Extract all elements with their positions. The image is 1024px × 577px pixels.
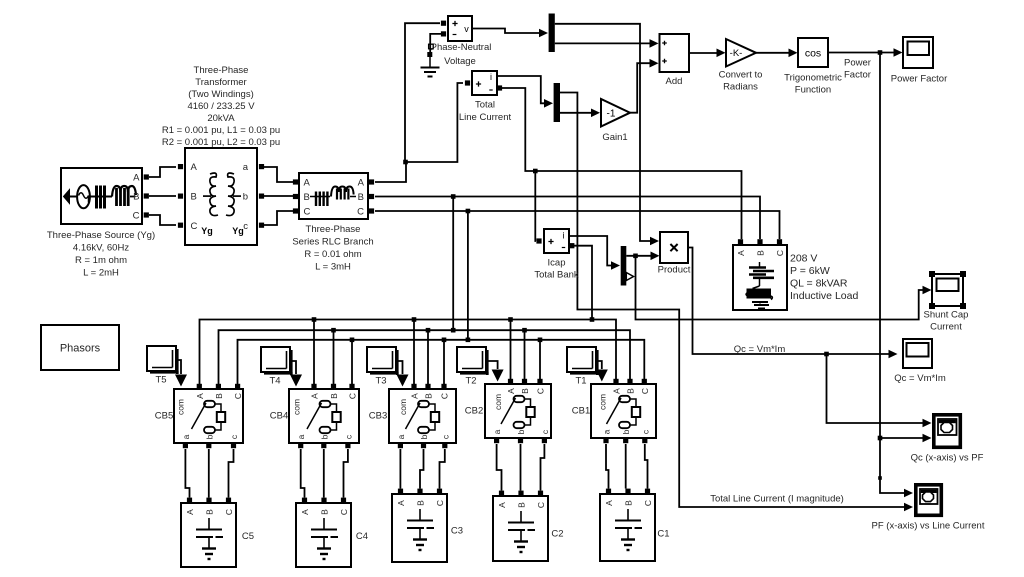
svg-text:Phasors: Phasors xyxy=(60,343,101,355)
svg-text:PF (x-axis) vs Line Current: PF (x-axis) vs Line Current xyxy=(872,521,985,532)
C4 port A xyxy=(302,498,307,503)
C1 port A xyxy=(606,489,611,494)
bus C drop CB2 xyxy=(539,340,541,382)
svg-text:c: c xyxy=(440,434,450,439)
svg-text:A: A xyxy=(304,178,311,189)
wire convert to cos xyxy=(756,52,789,54)
C2 capacitor icon xyxy=(520,511,522,523)
svg-text:C: C xyxy=(435,500,445,506)
svg-text:A: A xyxy=(396,500,406,506)
svg-text:R = 0.01 ohm: R = 0.01 ohm xyxy=(304,249,361,260)
svg-text:C: C xyxy=(348,393,358,399)
bus A drop CB4 xyxy=(313,320,315,387)
wire CB1 b to C1 B xyxy=(625,444,627,489)
demux Icap bar xyxy=(621,246,627,286)
svg-text:C: C xyxy=(640,388,650,394)
bus C junction phase tap xyxy=(466,338,471,343)
CB5 port c xyxy=(231,443,236,448)
wire source A to transformer A xyxy=(149,167,176,177)
wire timer T2 to CB2 com xyxy=(486,361,498,369)
CB5 port B xyxy=(216,384,221,389)
ground symbol xyxy=(429,57,431,68)
voltage measurement ports xyxy=(441,21,446,26)
demux V out1 Vm to Product xyxy=(555,24,650,241)
node phase C tap xyxy=(466,209,471,214)
wire CB4 a to C4 A xyxy=(301,449,305,498)
C3 port C xyxy=(437,489,442,494)
C5 port B xyxy=(206,498,211,503)
three-phase series RLC branch block xyxy=(299,173,368,219)
svg-text:(Two Windings): (Two Windings) xyxy=(188,89,253,100)
svg-text:Total: Total xyxy=(475,100,495,111)
transformer winding secondary xyxy=(226,173,234,216)
powergui block Phasors xyxy=(41,325,119,370)
svg-text:CB4: CB4 xyxy=(270,411,288,422)
CB1 port B xyxy=(627,379,632,384)
svg-text:B: B xyxy=(520,388,530,394)
timer block T3 xyxy=(396,350,399,375)
svg-text:a: a xyxy=(492,429,502,434)
current - port xyxy=(497,85,502,90)
CB1 port A xyxy=(613,379,618,384)
wire timer T3 to CB3 com xyxy=(396,361,403,374)
bus B drop CB4 xyxy=(333,330,335,386)
svg-text:B: B xyxy=(205,509,215,515)
svg-text:Phase-Neutral: Phase-Neutral xyxy=(431,42,492,53)
capacitor bank block C5 xyxy=(181,503,236,567)
capacitor bank block C3 xyxy=(392,494,447,562)
svg-text:4.16kV, 60Hz: 4.16kV, 60Hz xyxy=(73,243,129,254)
svg-text:T2: T2 xyxy=(465,376,476,387)
wire source B to transformer B xyxy=(149,195,176,197)
svg-text:cos: cos xyxy=(805,48,821,60)
svg-text:i: i xyxy=(490,72,492,82)
svg-text:C3: C3 xyxy=(451,526,463,537)
C5 port A xyxy=(187,498,192,503)
svg-text:B: B xyxy=(416,500,426,506)
svg-text:L = 2mH: L = 2mH xyxy=(83,268,119,279)
three-phase transformer block (Two Windings) xyxy=(185,148,257,245)
C1 port C xyxy=(645,489,650,494)
C3 port B xyxy=(417,489,422,494)
source port B xyxy=(144,193,149,198)
current measurement block Icap Total Bank xyxy=(544,229,569,253)
wire transformer b to RLC B xyxy=(264,195,293,197)
svg-text:C: C xyxy=(224,509,234,515)
bus A junction CB3 xyxy=(412,317,417,322)
svg-text:a: a xyxy=(243,162,249,173)
wire icap i to demux Icap xyxy=(569,236,611,266)
svg-text:T1: T1 xyxy=(575,376,586,387)
svg-text:a: a xyxy=(396,434,406,439)
svg-text:Qc = Vm*Im: Qc = Vm*Im xyxy=(894,373,946,384)
svg-text:com: com xyxy=(292,399,302,415)
CB2 switch icon xyxy=(514,396,525,402)
svg-text:b: b xyxy=(243,192,248,203)
svg-text:T5: T5 xyxy=(155,375,166,386)
wire timer T4 to CB4 com xyxy=(290,361,296,374)
scope block Qc = Vm*Im xyxy=(903,339,932,368)
bus A junction CB2 xyxy=(508,317,513,322)
wire transformer a to RLC A xyxy=(264,167,293,182)
svg-text:C2: C2 xyxy=(551,529,563,540)
three-phase source block (Three-Phase Source Yg) xyxy=(61,168,142,224)
capacitor bank block C1 xyxy=(600,494,655,561)
CB5 port C xyxy=(235,384,240,389)
svg-text:C: C xyxy=(775,250,785,256)
svg-text:a: a xyxy=(181,434,191,439)
svg-text:A: A xyxy=(612,388,622,394)
C2 ground xyxy=(514,540,528,542)
wire phase C tap down to bus C xyxy=(467,211,469,338)
bus C junction CB2 xyxy=(538,338,543,343)
CB5 port A xyxy=(197,384,202,389)
svg-text:A: A xyxy=(358,178,365,189)
svg-text:com: com xyxy=(176,399,186,415)
svg-text:Power Factor: Power Factor xyxy=(891,74,948,85)
svg-text:B: B xyxy=(626,388,636,394)
wire phase B to load xyxy=(375,197,760,240)
svg-text:Product: Product xyxy=(658,265,691,276)
bus C drop CB4 xyxy=(351,340,353,386)
svg-text:C: C xyxy=(643,500,653,506)
source port C xyxy=(144,212,149,217)
svg-text:B: B xyxy=(214,393,224,399)
CB5 switch icon xyxy=(204,401,215,407)
CB4 switch icon xyxy=(320,401,331,407)
C2 port C xyxy=(538,491,543,496)
trigonometric function block cos xyxy=(798,38,828,67)
wire current - down to phase A line xyxy=(502,88,742,239)
CB2 port c xyxy=(542,438,547,443)
wire add output to convert xyxy=(689,52,717,54)
C3 port A xyxy=(398,489,403,494)
node Icap signal to shunt scope xyxy=(633,254,638,259)
demux I out1 Imagnitude long wire xyxy=(560,93,904,508)
svg-text:com: com xyxy=(597,394,607,410)
bus C junction CB3 xyxy=(442,338,447,343)
C5 port C xyxy=(226,498,231,503)
svg-text:P = 6kW: P = 6kW xyxy=(790,265,830,277)
svg-text:C5: C5 xyxy=(242,531,254,542)
CB4 port a xyxy=(298,443,303,448)
bus B drop CB2 xyxy=(524,330,526,381)
svg-text:C1: C1 xyxy=(657,529,669,540)
RLC ports xyxy=(293,179,298,184)
bus A horizontal xyxy=(200,320,617,387)
svg-text:R1 = 0.001 pu, L1 = 0.03 pu: R1 = 0.001 pu, L1 = 0.03 pu xyxy=(162,125,280,136)
svg-text:208 V: 208 V xyxy=(790,253,817,265)
wire CB5 a to C5 A xyxy=(185,449,189,498)
wire product out Qc xyxy=(688,248,889,355)
svg-text:Icap: Icap xyxy=(548,258,566,269)
svg-text:C4: C4 xyxy=(356,531,368,542)
CB3 port A xyxy=(411,384,416,389)
svg-text:A: A xyxy=(185,509,195,515)
capacitor bank block C4 xyxy=(296,503,351,567)
wire timer T5 to CB5 com xyxy=(176,360,181,374)
timer block T2 xyxy=(486,350,489,375)
svg-text:b: b xyxy=(419,434,429,439)
svg-text:A: A xyxy=(191,162,198,173)
three-phase breaker block CB1 xyxy=(591,384,656,438)
wire PF to Qc-vs-PF input2 xyxy=(880,437,923,439)
svg-text:C: C xyxy=(440,393,450,399)
svg-text:CB2: CB2 xyxy=(465,406,483,417)
wire CB2 b to C2 B xyxy=(520,444,522,491)
svg-text:Convert to: Convert to xyxy=(719,70,763,81)
wire Icap signal to Shunt Cap Current scope xyxy=(636,256,924,320)
node phase A to Icap xyxy=(533,169,538,174)
svg-text:A: A xyxy=(195,393,205,399)
svg-text:Factor: Factor xyxy=(844,70,871,81)
CB1 switch icon xyxy=(619,396,630,402)
wire CB4 c to C4 C xyxy=(344,449,348,498)
wire CB5 b to C5 B xyxy=(208,449,210,498)
three-phase breaker block CB4 xyxy=(289,389,359,443)
wire voltage v output to demux V xyxy=(472,29,539,34)
C2 port A xyxy=(499,491,504,496)
svg-text:C: C xyxy=(339,509,349,515)
source port A xyxy=(144,174,149,179)
CB2 port B xyxy=(522,379,527,384)
bus B junction CB4 xyxy=(331,328,336,333)
svg-text:20kVA: 20kVA xyxy=(207,113,235,124)
wire current i output to demux I xyxy=(497,76,544,103)
svg-text:A: A xyxy=(310,393,320,399)
svg-text:L = 3mH: L = 3mH xyxy=(315,262,351,273)
RLC resistor icon xyxy=(310,196,314,198)
demux V bar xyxy=(549,14,555,53)
svg-text:A: A xyxy=(736,250,746,256)
svg-text:T4: T4 xyxy=(269,376,280,387)
bus A drop CB3 xyxy=(413,320,415,387)
svg-text:C: C xyxy=(536,502,546,508)
wire icap - to capacitor bus A xyxy=(574,246,592,319)
CB3 port C xyxy=(441,384,446,389)
demux I bar xyxy=(554,83,560,122)
node power factor signal xyxy=(878,50,883,55)
bus A drop CB2 xyxy=(510,320,512,382)
C4 ground xyxy=(317,547,331,549)
svg-text:a: a xyxy=(602,429,612,434)
svg-text:Three-Phase: Three-Phase xyxy=(194,65,249,76)
wire transformer c to RLC C xyxy=(264,211,293,225)
CB1 port c xyxy=(642,438,647,443)
C5 ground xyxy=(202,547,216,549)
C5 capacitor icon xyxy=(208,518,210,530)
svg-text:Yg: Yg xyxy=(201,226,213,236)
svg-text:Qc = Vm*Im: Qc = Vm*Im xyxy=(734,344,786,355)
scope block Shunt Cap Current (selected) xyxy=(932,274,963,306)
svg-text:B: B xyxy=(304,192,310,203)
svg-text:Line Current: Line Current xyxy=(459,112,512,123)
capacitor bank block C2 xyxy=(493,496,548,561)
svg-text:b: b xyxy=(621,429,631,434)
wire timer T1 to CB1 com xyxy=(596,361,602,369)
svg-text:T3: T3 xyxy=(375,376,386,387)
bus B junction CB2 xyxy=(522,328,527,333)
svg-text:A: A xyxy=(604,500,614,506)
svg-text:Voltage: Voltage xyxy=(444,56,476,67)
RLC inductor icon xyxy=(331,187,354,197)
wire CB5 c to C5 C xyxy=(229,449,234,498)
svg-text:Total Line Current (I magnitud: Total Line Current (I magnitude) xyxy=(710,494,844,505)
svg-text:Trigonometric: Trigonometric xyxy=(784,73,842,84)
C2 port B xyxy=(518,491,523,496)
CB3 port B xyxy=(425,384,430,389)
svg-text:Function: Function xyxy=(795,85,831,96)
load port A xyxy=(738,239,743,244)
C4 capacitor icon xyxy=(323,518,325,530)
svg-text:B: B xyxy=(517,502,527,508)
svg-text:A: A xyxy=(497,502,507,508)
load port C xyxy=(777,239,782,244)
svg-text:b: b xyxy=(516,429,526,434)
three-phase breaker block CB2 xyxy=(485,384,551,438)
wire CB3 c to C3 C xyxy=(440,449,445,489)
C1 port B xyxy=(625,489,630,494)
svg-text:-K-: -K- xyxy=(730,48,743,59)
svg-text:B: B xyxy=(133,192,139,203)
svg-text:Total Bank: Total Bank xyxy=(534,270,579,281)
timer block T5 xyxy=(176,349,179,374)
wire phase C to load xyxy=(375,211,780,239)
svg-text:B: B xyxy=(320,509,330,515)
svg-text:A: A xyxy=(133,173,140,184)
three-phase breaker block CB5 xyxy=(174,389,243,443)
bus B junction phase tap xyxy=(451,328,456,333)
svg-text:-1: -1 xyxy=(607,109,616,120)
node Qc to XY xyxy=(824,352,829,357)
svg-text:C: C xyxy=(233,393,243,399)
svg-text:B: B xyxy=(424,393,434,399)
current measurement + port xyxy=(465,80,470,85)
C1 capacitor icon xyxy=(627,509,629,521)
svg-text:Transformer: Transformer xyxy=(195,77,246,88)
bus A junction from Icap xyxy=(590,317,595,322)
bus B junction CB3 xyxy=(426,328,431,333)
demux I out2 to Gain1 xyxy=(560,112,592,114)
svg-text:Radians: Radians xyxy=(723,82,758,93)
CB5 port a xyxy=(183,443,188,448)
wire demux Icap out to Product input2 xyxy=(626,255,651,257)
C1 ground xyxy=(621,538,635,540)
wire CB1 a to C1 A xyxy=(606,444,609,489)
svg-text:Series RLC Branch: Series RLC Branch xyxy=(292,237,373,248)
load icon inductor resistor xyxy=(759,262,761,267)
wire CB2 c to C2 C xyxy=(541,444,545,491)
svg-text:Add: Add xyxy=(666,76,683,87)
bus C junction CB4 xyxy=(350,338,355,343)
wire phase A down to Icap + xyxy=(534,171,537,241)
svg-text:CB3: CB3 xyxy=(369,411,387,422)
C4 port C xyxy=(341,498,346,503)
svg-text:A: A xyxy=(506,388,516,394)
C3 ground xyxy=(413,538,427,540)
svg-text:c: c xyxy=(343,434,353,439)
wire Qc to Qc-vs-PF input1 xyxy=(827,354,923,423)
svg-text:CB5: CB5 xyxy=(155,411,173,422)
voltage measurement block Phase-Neutral Voltage xyxy=(448,16,472,41)
CB3 port c xyxy=(442,443,447,448)
gain block Gain1 -1 xyxy=(601,99,630,127)
C4 port B xyxy=(321,498,326,503)
wire gain1 to Add input2 xyxy=(630,63,650,112)
svg-text:B: B xyxy=(358,192,364,203)
wire CB1 c to C1 C xyxy=(645,444,648,489)
svg-text:b: b xyxy=(319,434,329,439)
wire voltage - to ground xyxy=(430,34,441,53)
wire source C to transformer C xyxy=(149,215,176,225)
transformer winding primary xyxy=(210,173,218,216)
svg-text:i: i xyxy=(563,231,565,241)
CB4 port B xyxy=(331,384,336,389)
CB2 port b xyxy=(518,438,523,443)
bus A junction CB4 xyxy=(312,317,317,322)
CB4 port b xyxy=(321,443,326,448)
svg-text:v: v xyxy=(464,24,469,34)
CB3 port a xyxy=(398,443,403,448)
svg-text:Three-Phase Source (Yg): Three-Phase Source (Yg) xyxy=(47,230,155,241)
svg-text:QL = 8kVAR: QL = 8kVAR xyxy=(790,278,848,290)
svg-text:B: B xyxy=(624,500,634,506)
gain block Convert to Radians xyxy=(726,39,756,67)
svg-text:B: B xyxy=(756,250,766,256)
svg-text:Power: Power xyxy=(844,58,871,69)
svg-text:C: C xyxy=(304,207,311,218)
load port B xyxy=(757,239,762,244)
timer block T1 xyxy=(596,350,599,375)
CB3 switch icon xyxy=(418,401,429,407)
svg-text:C: C xyxy=(357,207,364,218)
svg-text:B: B xyxy=(329,393,339,399)
node phase A tap xyxy=(403,160,408,165)
CB3 port b xyxy=(421,443,426,448)
xy graph block PF (x-axis) vs Line Current xyxy=(916,485,942,516)
xy graph block Qc (x-axis) vs PF xyxy=(934,415,961,448)
svg-text:Yg: Yg xyxy=(232,226,244,236)
wire CB2 a to C2 A xyxy=(497,444,502,491)
CB4 port C xyxy=(349,384,354,389)
svg-text:C: C xyxy=(536,388,546,394)
bus C horizontal xyxy=(238,340,645,386)
wire PF signal down xyxy=(880,53,904,494)
svg-text:Inductive Load: Inductive Load xyxy=(790,290,858,302)
CB4 port A xyxy=(311,384,316,389)
icap - port xyxy=(569,243,574,248)
svg-text:c: c xyxy=(243,221,248,232)
svg-text:C: C xyxy=(191,221,198,232)
svg-text:CB1: CB1 xyxy=(572,406,590,417)
svg-text:R = 1m ohm: R = 1m ohm xyxy=(75,255,127,266)
svg-text:b: b xyxy=(204,434,214,439)
node on PF wire xyxy=(878,476,882,480)
svg-text:A: A xyxy=(300,509,310,515)
bus B horizontal xyxy=(219,330,631,386)
svg-text:Qc (x-axis) vs PF: Qc (x-axis) vs PF xyxy=(911,453,984,464)
svg-text:c: c xyxy=(640,429,650,434)
scope block Power Factor xyxy=(903,37,933,68)
CB1 port C xyxy=(642,379,647,384)
wire cos to power factor scope xyxy=(828,52,894,54)
svg-text:Three-Phase: Three-Phase xyxy=(306,224,361,235)
svg-text:Gain1: Gain1 xyxy=(602,132,627,143)
svg-text:c: c xyxy=(540,429,550,434)
svg-text:Current: Current xyxy=(930,322,962,333)
bus B drop CB3 xyxy=(427,330,429,386)
sum block Add xyxy=(660,34,690,72)
